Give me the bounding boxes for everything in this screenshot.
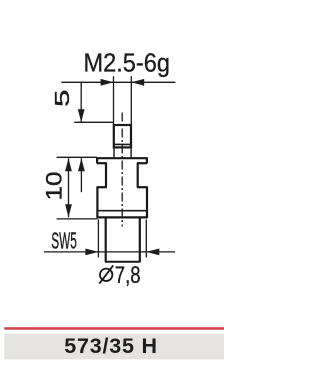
extension line left of thread: [113, 76, 115, 125]
gray title band: [4, 334, 224, 360]
disc left edge: [96, 186, 98, 218]
disc right edge: [146, 186, 148, 218]
dimension 5: upper leg with down arrow: [80, 82, 82, 122]
flange right edge: [146, 157, 148, 163]
dimension line M2.5-6g: [61, 81, 175, 83]
bottom face: [105, 261, 141, 263]
thread stud M2.5 outline: [114, 125, 131, 147]
dimension 5: lower leg with up arrow: [80, 158, 82, 192]
extension line left dia7.8: [97, 220, 99, 258]
svg-text:7,8: 7,8: [115, 262, 141, 289]
bottom cylinder left edge: [105, 217, 107, 262]
hex SW5 right edge: [137, 163, 139, 187]
flange bottom right wing: [137, 162, 147, 164]
bottom cylinder right edge: [139, 217, 141, 262]
svg-text:5: 5: [52, 90, 74, 108]
arrowhead pointing right at left extension: [85, 249, 98, 256]
extension line right of thread: [130, 76, 132, 125]
dimension 10: line with arrows: [68, 158, 70, 217]
flange top edge: [97, 157, 147, 159]
dimension 5: extension line at thread top: [74, 121, 113, 123]
svg-text:SW5: SW5: [51, 228, 77, 254]
centerline: [121, 113, 123, 227]
hex SW5 left edge: [105, 163, 107, 187]
flange left edge: [96, 157, 98, 163]
neck left edge: [113, 147, 115, 157]
disc shoulder left wing: [97, 186, 106, 188]
disc shoulder right wing: [137, 186, 147, 188]
neck right edge: [130, 147, 132, 157]
disc chamfer line: [97, 210, 147, 212]
arrowhead right M2.5: [131, 79, 144, 86]
dia 7.8 dimension line (doubles as SW5 underline): [44, 251, 175, 253]
red separator rule: [4, 327, 224, 330]
svg-text:573/35 H: 573/35 H: [64, 334, 158, 358]
dimension 10: upper extension line: [57, 156, 97, 158]
arrowhead pointing left at right extension: [146, 249, 159, 256]
svg-text:10: 10: [42, 172, 67, 201]
disc bottom edge: [97, 216, 147, 218]
svg-text:M2.5-6g: M2.5-6g: [84, 47, 171, 77]
thread runout line: [113, 143, 132, 145]
arrowhead left M2.5: [101, 79, 114, 86]
diameter symbol of 7,8 label: [100, 269, 112, 281]
flange bottom left wing: [97, 162, 107, 164]
extension line right dia7.8: [145, 220, 147, 258]
dimension 10: lower extension line: [57, 218, 98, 220]
